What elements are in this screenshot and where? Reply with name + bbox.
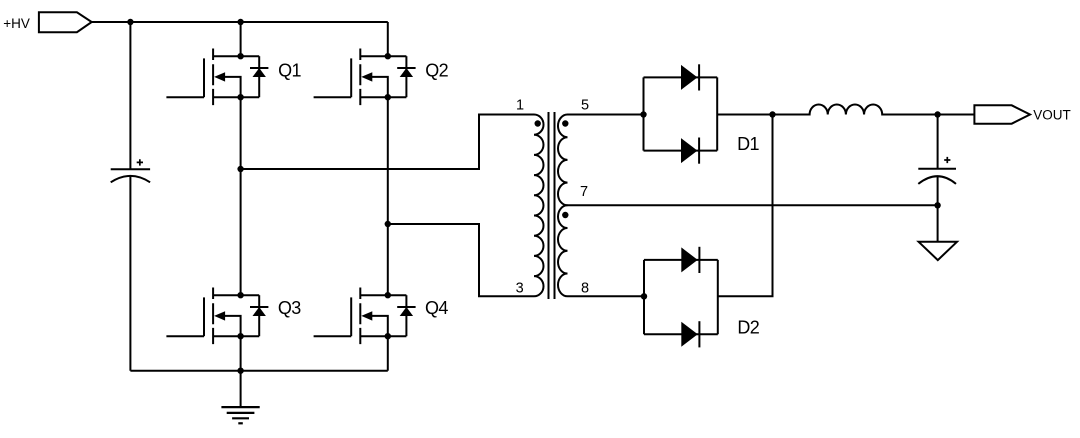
wire top rail +HV bbox=[92, 21, 388, 23]
diode pair D2 bbox=[644, 247, 718, 348]
node dot D2 anode bbox=[641, 293, 647, 299]
svg-text:5: 5 bbox=[581, 97, 589, 113]
diode pair D1 bbox=[644, 64, 718, 163]
svg-text:VOUT: VOUT bbox=[1033, 108, 1071, 123]
capacitor C2 output bbox=[918, 157, 956, 184]
node dot rectified rail bbox=[769, 111, 775, 117]
ground output triangle bbox=[919, 242, 957, 260]
node dot return rail bbox=[934, 202, 940, 208]
node dot D1 anode bbox=[640, 111, 646, 117]
wire pin 5 to D1 bbox=[568, 114, 644, 116]
svg-text:3: 3 bbox=[516, 281, 524, 297]
capacitor C1 input bulk bbox=[111, 159, 150, 182]
wire output cap branch down bbox=[937, 115, 939, 169]
wire pin 7 center tap return bbox=[568, 204, 938, 206]
wire D1 cathode to inductor node bbox=[717, 114, 772, 116]
svg-text:Q4: Q4 bbox=[425, 298, 448, 318]
node dot output bbox=[934, 111, 940, 117]
svg-text:D2: D2 bbox=[737, 318, 759, 338]
transformer T1 primary winding bbox=[534, 114, 544, 296]
wire Q2 drain from rail bbox=[387, 22, 389, 56]
transistor Q3 bbox=[166, 288, 268, 345]
wire D2 cathode riser to inductor node bbox=[718, 115, 773, 297]
wire bottom rail bbox=[130, 370, 387, 372]
wire Q4 source to bottom rail bbox=[387, 336, 389, 371]
wire inductor to VOUT flag bbox=[938, 114, 975, 116]
wire input cap to bottom rail bbox=[129, 176, 131, 371]
wire input cap branch down bbox=[129, 22, 131, 169]
wire node A left phase to primary pin 1 bbox=[241, 115, 534, 170]
transformer T1 secondary lower winding bbox=[558, 205, 568, 296]
ground chassis symbol bbox=[221, 371, 259, 424]
svg-text:+HV: +HV bbox=[3, 16, 30, 31]
node dot bottom rail ground bbox=[237, 368, 243, 374]
wire node B right phase to primary pin 3 bbox=[388, 224, 534, 296]
node dot secondary polarity top bbox=[562, 120, 568, 126]
transistor Q1 bbox=[166, 49, 268, 106]
node dot rail cap branch bbox=[127, 19, 133, 25]
transistor Q4 bbox=[314, 288, 416, 345]
wire left leg phase Q1 source to Q3 drain bbox=[240, 97, 242, 295]
connector +HV input flag bbox=[39, 12, 92, 32]
svg-text:7: 7 bbox=[580, 184, 588, 200]
wire output cap to ground bbox=[937, 177, 939, 242]
svg-text:Q2: Q2 bbox=[425, 61, 448, 81]
svg-text:Q1: Q1 bbox=[278, 61, 301, 81]
svg-text:8: 8 bbox=[581, 281, 589, 297]
wire pin 8 to D2 bbox=[568, 295, 645, 297]
node dot right phase bbox=[385, 221, 391, 227]
node dot rail Q1 drain bbox=[237, 19, 243, 25]
svg-text:D1: D1 bbox=[737, 134, 759, 154]
svg-text:Q3: Q3 bbox=[278, 298, 301, 318]
wire right leg phase Q2 source to Q4 drain bbox=[387, 97, 389, 295]
wire Q1 drain from rail bbox=[240, 22, 242, 56]
wire Q3 source to bottom rail bbox=[240, 336, 242, 371]
node dot primary polarity bbox=[535, 120, 541, 126]
transformer T1 secondary upper winding bbox=[558, 115, 568, 206]
inductor L1 bbox=[773, 104, 938, 114]
node dot secondary polarity mid bbox=[562, 212, 568, 218]
transformer T1 core bbox=[549, 112, 555, 299]
transistor Q2 bbox=[314, 49, 416, 106]
node dot left phase bbox=[237, 166, 243, 172]
connector VOUT output flag bbox=[974, 105, 1030, 123]
svg-text:1: 1 bbox=[516, 97, 524, 113]
